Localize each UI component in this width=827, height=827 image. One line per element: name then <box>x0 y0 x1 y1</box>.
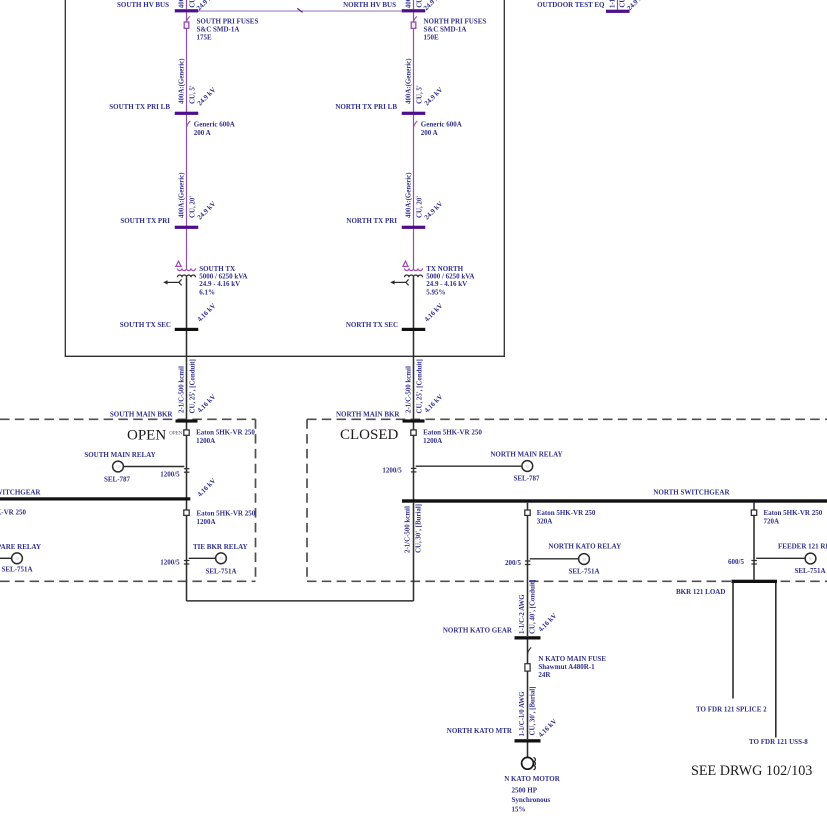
svg-text:600/5: 600/5 <box>728 558 744 566</box>
svg-text:BKR 121 LOAD: BKR 121 LOAD <box>676 588 725 596</box>
svg-text:NORTH KATO RELAY: NORTH KATO RELAY <box>548 543 621 551</box>
svg-text:SOUTH SWITCHGEAR: SOUTH SWITCHGEAR <box>0 488 41 496</box>
svg-text:SEL-787: SEL-787 <box>513 475 540 483</box>
svg-text:50: 50 <box>116 465 120 469</box>
svg-text:2-1/C-500 kcmil: 2-1/C-500 kcmil <box>179 366 186 413</box>
svg-text:720A: 720A <box>764 518 780 526</box>
svg-text:N KATO MOTOR: N KATO MOTOR <box>504 775 561 783</box>
svg-text:1-1/C-2 AWG: 1-1/C-2 AWG <box>519 594 526 634</box>
svg-text:1-1/C-1/0 AWG: 1-1/C-1/0 AWG <box>519 691 526 737</box>
svg-text:175E: 175E <box>197 34 213 42</box>
svg-text:24R: 24R <box>538 671 551 679</box>
svg-text:NORTH KATO GEAR: NORTH KATO GEAR <box>443 627 513 635</box>
svg-text:Synchronous: Synchronous <box>512 796 551 804</box>
svg-text:NORTH KATO MTR: NORTH KATO MTR <box>447 727 513 735</box>
svg-text:SOUTH MAIN RELAY: SOUTH MAIN RELAY <box>84 451 155 459</box>
svg-text:400A:(Generic): 400A:(Generic) <box>406 172 413 218</box>
svg-text:CU, 20': CU, 20' <box>189 196 196 218</box>
svg-text:NORTH SWITCHGEAR: NORTH SWITCHGEAR <box>653 488 730 496</box>
svg-text:Eaton 5HK-VR 250: Eaton 5HK-VR 250 <box>423 429 482 437</box>
svg-text:Eaton 5HK-VR 250: Eaton 5HK-VR 250 <box>0 509 26 517</box>
svg-text:CLOSED: CLOSED <box>340 427 399 443</box>
svg-text:400A:(Generic): 400A:(Generic) <box>406 58 413 104</box>
svg-text:24.9 - 4.16 kV: 24.9 - 4.16 kV <box>426 280 467 288</box>
svg-text:CU, 25', [Conduit]: CU, 25', [Conduit] <box>416 359 423 413</box>
svg-text:CU, 20': CU, 20' <box>416 196 423 218</box>
svg-text:SEL-751A: SEL-751A <box>568 567 599 575</box>
svg-text:SOUTH TX PRI LB: SOUTH TX PRI LB <box>109 103 170 111</box>
svg-text:CU, 40', [Conduit]: CU, 40', [Conduit] <box>530 580 537 634</box>
svg-text:N KATO MAIN FUSE: N KATO MAIN FUSE <box>538 655 606 663</box>
svg-text:OUTDOOR TEST EQ: OUTDOOR TEST EQ <box>537 1 605 9</box>
svg-text:50: 50 <box>15 557 19 561</box>
svg-text:Eaton 5HK-VR 250: Eaton 5HK-VR 250 <box>197 510 256 518</box>
svg-text:CU, 25', [Conduit]: CU, 25', [Conduit] <box>189 359 196 413</box>
svg-text:2-1/C-500 kcmil: 2-1/C-500 kcmil <box>405 506 412 553</box>
svg-text:CU, 5': CU, 5' <box>189 85 196 104</box>
svg-text:OPEN: OPEN <box>169 431 182 436</box>
svg-text:TIE BKR RELAY: TIE BKR RELAY <box>193 543 248 551</box>
svg-text:50: 50 <box>582 558 586 562</box>
svg-text:CU, 5': CU, 5' <box>416 85 423 104</box>
svg-text:400A:(Generic): 400A:(Generic) <box>179 172 186 218</box>
svg-text:15%: 15% <box>512 806 526 814</box>
svg-text:50: 50 <box>809 557 813 561</box>
svg-text:Generic 600A: Generic 600A <box>421 121 462 129</box>
svg-text:CU: CU <box>620 0 627 8</box>
svg-text:CU, 30', [Burial]: CU, 30', [Burial] <box>416 504 423 553</box>
svg-text:320A: 320A <box>537 518 553 526</box>
svg-text:SOUTH TX SEC: SOUTH TX SEC <box>120 321 171 329</box>
svg-text:400: 400 <box>406 0 413 8</box>
svg-text:TO FDR 121 USS-8: TO FDR 121 USS-8 <box>749 738 808 746</box>
svg-text:SEE DRWG 102/103: SEE DRWG 102/103 <box>691 763 812 779</box>
svg-text:CU, 30', [Burial]: CU, 30', [Burial] <box>530 687 537 736</box>
svg-text:NORTH MAIN RELAY: NORTH MAIN RELAY <box>490 451 562 459</box>
svg-text:50: 50 <box>526 465 530 469</box>
svg-text:SOUTH HV BUS: SOUTH HV BUS <box>117 1 169 9</box>
svg-text:NORTH MAIN BKR: NORTH MAIN BKR <box>336 410 400 418</box>
svg-text:SEL-751A: SEL-751A <box>205 568 236 576</box>
svg-text:1200A: 1200A <box>423 437 442 445</box>
svg-text:1-1: 1-1 <box>609 0 616 8</box>
svg-text:1200/5: 1200/5 <box>160 559 180 567</box>
svg-text:6.1%: 6.1% <box>199 288 215 296</box>
svg-text:2-1/C-500 kcmil: 2-1/C-500 kcmil <box>406 366 413 413</box>
svg-text:1200/5: 1200/5 <box>160 471 180 479</box>
svg-text:NORTH PRI FUSES: NORTH PRI FUSES <box>424 18 487 26</box>
svg-text:SEL-751A: SEL-751A <box>794 567 825 575</box>
svg-text:Generic 600A: Generic 600A <box>194 121 235 129</box>
svg-text:200 A: 200 A <box>421 129 438 137</box>
svg-text:NORTH TX PRI LB: NORTH TX PRI LB <box>335 103 397 111</box>
svg-text:1200A: 1200A <box>196 437 215 445</box>
svg-text:SEL-787: SEL-787 <box>104 476 131 484</box>
svg-text:Eaton 5HK-VR 250: Eaton 5HK-VR 250 <box>764 509 823 517</box>
svg-text:Eaton 5HK-VR 250: Eaton 5HK-VR 250 <box>196 429 255 437</box>
svg-text:Eaton 5HK-VR 250: Eaton 5HK-VR 250 <box>537 509 596 517</box>
svg-text:SOUTH PRI FUSES: SOUTH PRI FUSES <box>197 18 259 26</box>
svg-text:2500 HP: 2500 HP <box>512 786 538 794</box>
svg-text:200 A: 200 A <box>194 129 211 137</box>
svg-text:Shawmut A480R-1: Shawmut A480R-1 <box>538 663 595 671</box>
svg-text:TO FDR 121 SPLICE 2: TO FDR 121 SPLICE 2 <box>696 706 767 714</box>
svg-text:150E: 150E <box>424 34 440 42</box>
svg-text:200/5: 200/5 <box>505 559 521 567</box>
svg-text:5.95%: 5.95% <box>426 288 445 296</box>
svg-text:24.9 - 4.16 kV: 24.9 - 4.16 kV <box>199 280 240 288</box>
svg-text:SEL-751A: SEL-751A <box>1 566 32 574</box>
svg-text:S&C SMD-1A: S&C SMD-1A <box>197 26 240 34</box>
svg-text:400: 400 <box>179 0 186 8</box>
svg-text:OPEN: OPEN <box>127 427 166 443</box>
svg-text:S&C SMD-1A: S&C SMD-1A <box>424 26 467 34</box>
svg-text:1200A: 1200A <box>197 518 216 526</box>
svg-text:NORTH TX SEC: NORTH TX SEC <box>346 321 398 329</box>
svg-text:1200/5: 1200/5 <box>382 467 402 475</box>
svg-text:NORTH TX PRI: NORTH TX PRI <box>346 217 397 225</box>
svg-text:NORTH HV BUS: NORTH HV BUS <box>343 1 396 9</box>
svg-text:SPARE RELAY: SPARE RELAY <box>0 543 41 551</box>
svg-text:FEEDER 121 RELAY: FEEDER 121 RELAY <box>778 543 827 551</box>
svg-text:400A:(Generic): 400A:(Generic) <box>179 58 186 104</box>
svg-text:SOUTH TX PRI: SOUTH TX PRI <box>120 217 170 225</box>
svg-text:SOUTH MAIN BKR: SOUTH MAIN BKR <box>110 410 174 418</box>
svg-text:50: 50 <box>219 557 223 561</box>
